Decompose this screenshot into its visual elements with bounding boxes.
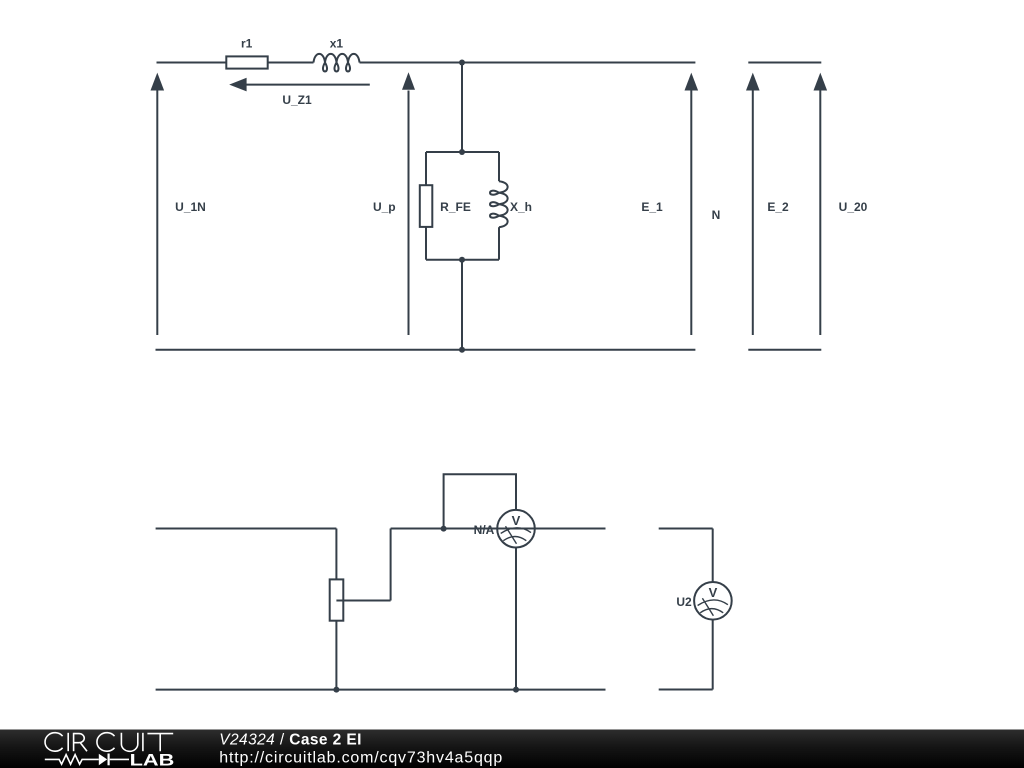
svg-text:V: V: [709, 585, 718, 600]
svg-text:LAB: LAB: [130, 751, 175, 768]
svg-text:V: V: [512, 513, 521, 528]
svg-text:X_h: X_h: [510, 200, 532, 214]
svg-text:U_Z1: U_Z1: [282, 93, 312, 107]
svg-text:x1: x1: [330, 37, 344, 51]
svg-text:N/A: N/A: [474, 523, 495, 537]
svg-text:U2: U2: [676, 595, 692, 609]
svg-text:U_20: U_20: [839, 200, 868, 214]
svg-text:r1: r1: [241, 37, 253, 51]
svg-text:V24324 / Case 2 EI: V24324 / Case 2 EI: [219, 731, 362, 748]
svg-text:http://circuitlab.com/cqv73hv4: http://circuitlab.com/cqv73hv4a5qqp: [219, 749, 502, 766]
svg-text:R_FE: R_FE: [440, 200, 471, 214]
svg-text:E_2: E_2: [767, 200, 789, 214]
svg-text:E_1: E_1: [641, 200, 663, 214]
svg-text:N: N: [712, 208, 721, 222]
svg-text:U_p: U_p: [373, 200, 396, 214]
svg-text:U_1N: U_1N: [175, 200, 206, 214]
